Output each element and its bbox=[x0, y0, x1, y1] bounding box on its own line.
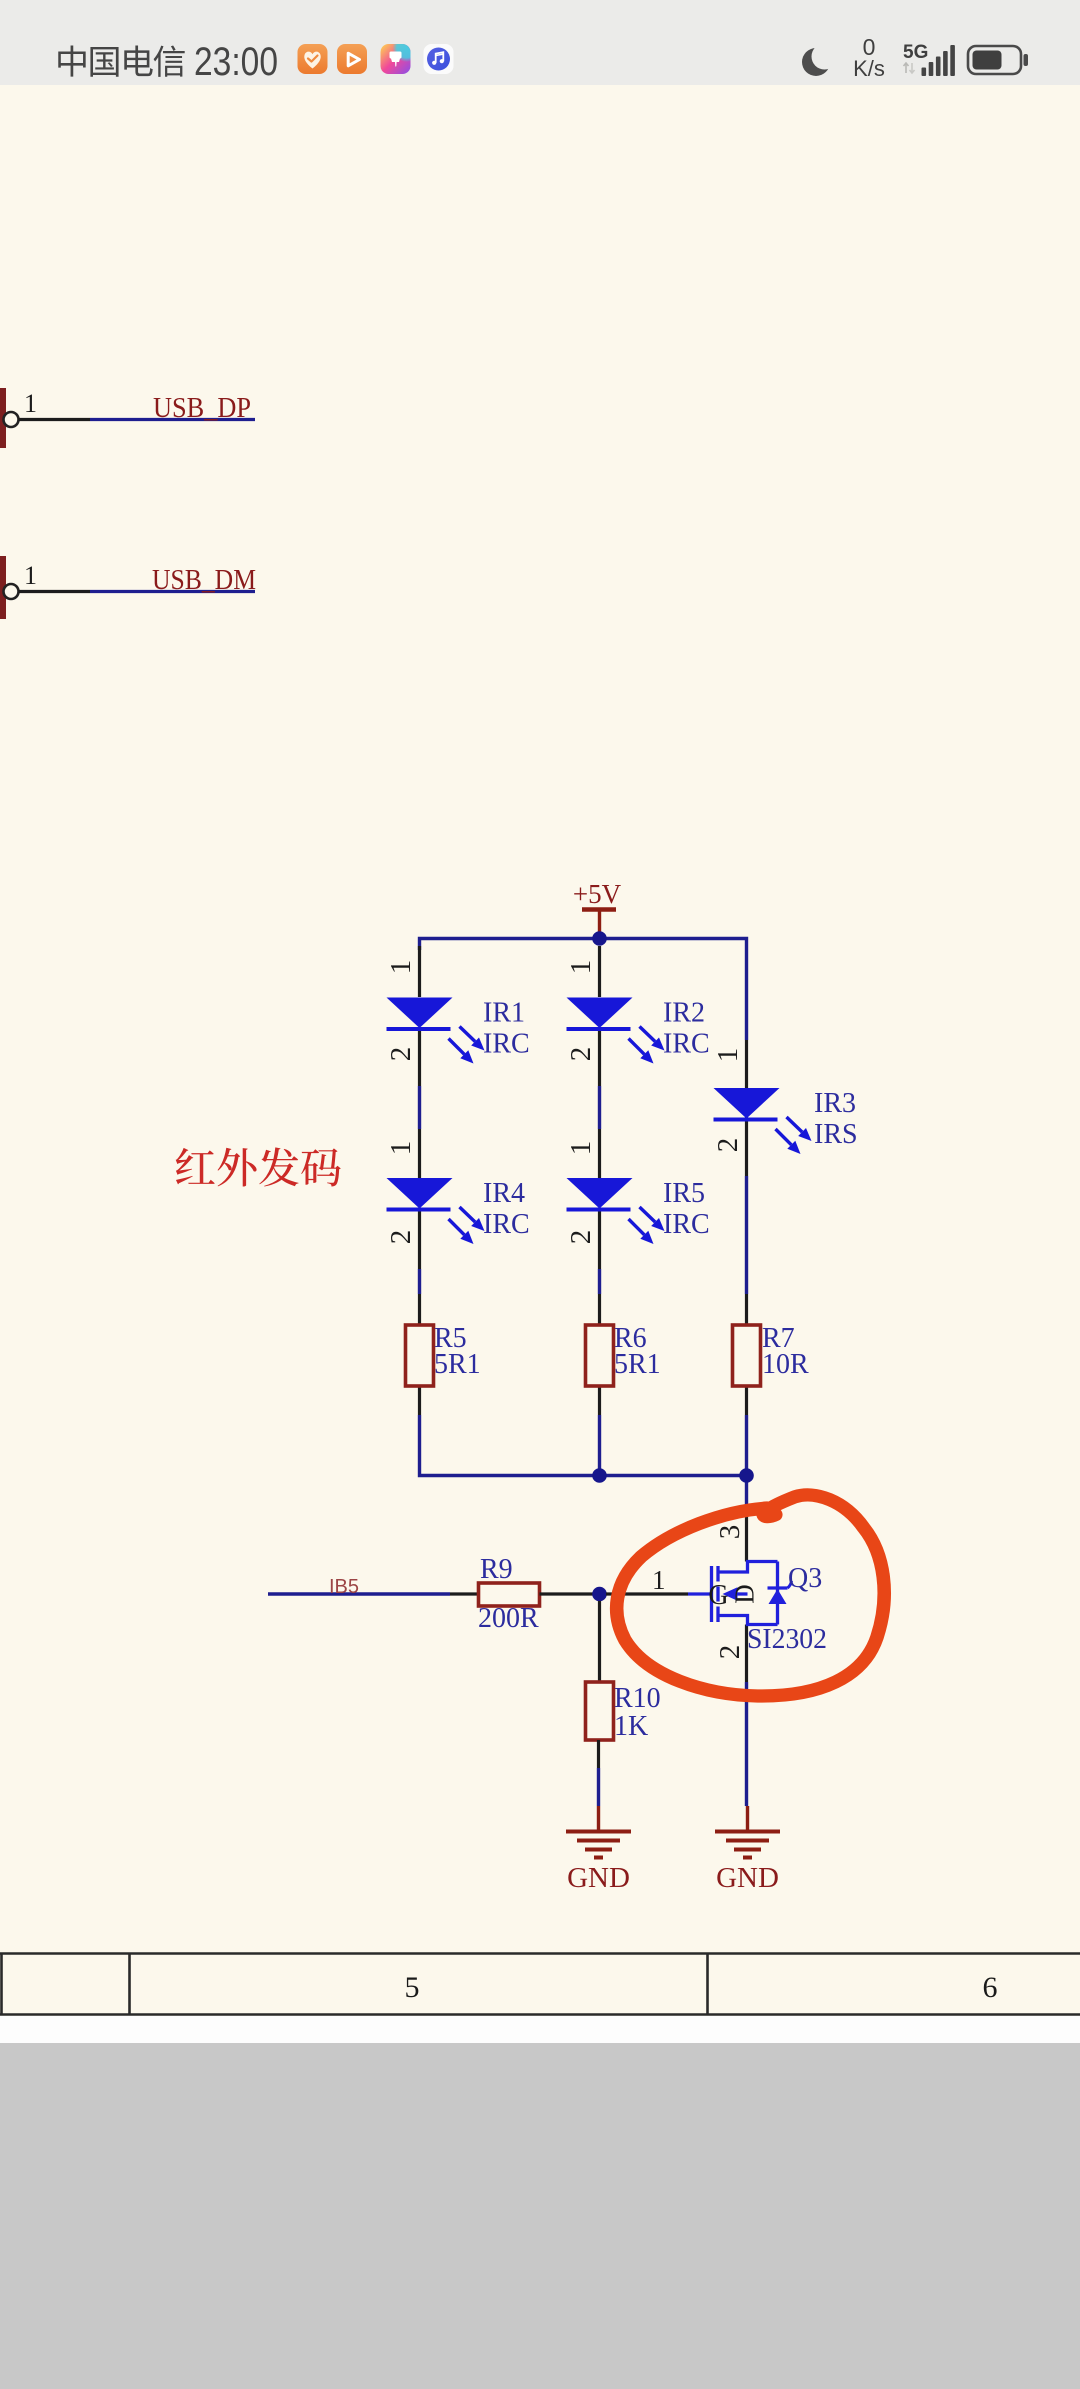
connector pin circle (USB_DP) bbox=[4, 412, 19, 427]
svg-text:USB_DM: USB_DM bbox=[152, 564, 256, 596]
svg-text:5G: 5G bbox=[903, 42, 928, 63]
wire R10 to GND (black then blue) bbox=[597, 1740, 600, 1768]
svg-text:3: 3 bbox=[714, 1525, 746, 1540]
svg-text:IR1: IR1 bbox=[483, 998, 525, 1029]
app icon video (orange play) bbox=[337, 44, 367, 74]
LED IR5 (IRC) bbox=[567, 1178, 633, 1209]
tiny up/down arrows bbox=[904, 63, 909, 73]
resistor R10 1K bbox=[586, 1682, 614, 1740]
wire column 3 (IR3/R7/Q3 string) bbox=[745, 1040, 748, 1088]
wire R9 to junction (black) bbox=[540, 1592, 595, 1595]
wire to R9 (black) bbox=[450, 1592, 478, 1595]
svg-text:2: 2 bbox=[565, 1230, 597, 1245]
svg-text:5: 5 bbox=[405, 1971, 420, 2004]
resistor R5 5R1 bbox=[406, 1325, 434, 1386]
svg-text:1: 1 bbox=[385, 960, 417, 975]
app icon health (orange heart) bbox=[298, 44, 328, 74]
status bar background bbox=[0, 0, 1080, 85]
carrier text 中国电信 bbox=[58, 45, 85, 76]
resistor R6 5R1 bbox=[586, 1325, 614, 1386]
battery icon bbox=[968, 46, 1021, 74]
svg-text:5R1: 5R1 bbox=[614, 1349, 661, 1380]
svg-text:6: 6 bbox=[983, 1971, 998, 2004]
app icon music (blue note) bbox=[424, 44, 454, 74]
connector pin edge bar (USB_DM) bbox=[0, 556, 6, 619]
svg-text:GND: GND bbox=[716, 1862, 779, 1894]
svg-text:R9: R9 bbox=[480, 1554, 513, 1585]
junction node bottom bus col3 bbox=[739, 1468, 754, 1483]
svg-text:+5V: +5V bbox=[573, 879, 622, 909]
svg-text:IRC: IRC bbox=[483, 1029, 530, 1060]
signal bars bbox=[922, 68, 927, 77]
net wire (blue) USB_DM bbox=[90, 590, 255, 593]
net wire IB5 (blue) bbox=[268, 1592, 450, 1595]
net wire (blue) USB_DP bbox=[90, 418, 255, 421]
pin wire (black) USB_DP bbox=[19, 418, 91, 421]
pin wire (black) USB_DM bbox=[19, 590, 91, 593]
svg-text:IRC: IRC bbox=[483, 1209, 530, 1240]
svg-text:1: 1 bbox=[24, 561, 37, 590]
svg-text:IRS: IRS bbox=[814, 1119, 858, 1150]
junction node gate/R10 bbox=[592, 1587, 607, 1602]
junction node on +5V bus bbox=[592, 931, 607, 946]
LED IR1 (IRC) bbox=[387, 998, 453, 1029]
svg-text:1: 1 bbox=[385, 1141, 417, 1156]
svg-text:5R1: 5R1 bbox=[434, 1349, 481, 1380]
svg-text:1: 1 bbox=[712, 1048, 744, 1063]
resistor R7 10R bbox=[733, 1325, 761, 1386]
svg-text:2: 2 bbox=[385, 1047, 417, 1062]
wire junction down to R10 bbox=[598, 1601, 601, 1682]
connector pin edge bar (USB_DP) bbox=[0, 388, 6, 448]
svg-text:SI2302: SI2302 bbox=[747, 1624, 827, 1655]
ground symbol at x=747.5 bbox=[715, 1806, 780, 1858]
wire junction to gate (black) bbox=[606, 1592, 688, 1595]
svg-text:IR5: IR5 bbox=[663, 1178, 705, 1209]
moon icon bbox=[802, 48, 830, 76]
svg-text:23:00: 23:00 bbox=[194, 40, 278, 84]
svg-text:IRC: IRC bbox=[663, 1209, 710, 1240]
resistor R9 200R bbox=[479, 1583, 540, 1606]
connector pin circle (USB_DM) bbox=[4, 584, 19, 599]
wire column 2 (IR2/IR5/R6 string) bbox=[598, 946, 601, 997]
svg-text:2: 2 bbox=[565, 1047, 597, 1062]
svg-text:2: 2 bbox=[385, 1230, 417, 1245]
red hand-drawn highlight circle around Q3 bbox=[617, 1495, 885, 1696]
svg-text:USB_DP: USB_DP bbox=[153, 392, 251, 424]
transistor Q3 SI2302 (N-MOSFET) bbox=[688, 1562, 778, 1625]
svg-text:1: 1 bbox=[565, 1141, 597, 1156]
LED IR4 (IRC) bbox=[387, 1178, 453, 1209]
svg-text:2: 2 bbox=[714, 1645, 746, 1660]
wire: bottom bus bbox=[420, 1473, 747, 1477]
svg-text:GND: GND bbox=[567, 1862, 630, 1894]
svg-text:IB5: IB5 bbox=[329, 1576, 359, 1598]
svg-text:K/s: K/s bbox=[853, 56, 885, 81]
bottom white strip bbox=[0, 2016, 1080, 2043]
svg-text:1: 1 bbox=[24, 389, 37, 418]
svg-text:1: 1 bbox=[565, 960, 597, 975]
svg-text:IR3: IR3 bbox=[814, 1088, 856, 1119]
junction node bottom bus col2 bbox=[592, 1468, 607, 1483]
svg-text:1: 1 bbox=[652, 1565, 666, 1595]
Q3 body diode bbox=[768, 1586, 788, 1589]
wire column 1 (IR1/IR4/R5 string) bbox=[418, 946, 421, 997]
svg-text:IR4: IR4 bbox=[483, 1178, 525, 1209]
red annotation text 红外发码 bbox=[176, 1148, 215, 1184]
svg-text:R10: R10 bbox=[614, 1683, 661, 1714]
svg-text:10R: 10R bbox=[762, 1349, 809, 1380]
svg-text:2: 2 bbox=[712, 1138, 744, 1153]
LED IR2 (IRC) bbox=[567, 998, 633, 1029]
svg-text:1K: 1K bbox=[614, 1711, 648, 1742]
svg-text:IR2: IR2 bbox=[663, 998, 705, 1029]
bottom gray area bbox=[0, 2043, 1080, 2389]
ground symbol at x=598.5 bbox=[566, 1806, 631, 1858]
sheet border lines bbox=[0, 1952, 1080, 1955]
wire: top +5V bus bbox=[420, 939, 747, 951]
svg-text:IRC: IRC bbox=[663, 1029, 710, 1060]
svg-text:D: D bbox=[730, 1584, 760, 1604]
svg-text:Q3: Q3 bbox=[788, 1563, 822, 1594]
svg-text:G: G bbox=[708, 1580, 728, 1611]
svg-text:200R: 200R bbox=[478, 1603, 539, 1634]
LED IR3 (IRS) bbox=[714, 1088, 780, 1119]
app icon themes (rainbow brush) bbox=[381, 34, 421, 74]
